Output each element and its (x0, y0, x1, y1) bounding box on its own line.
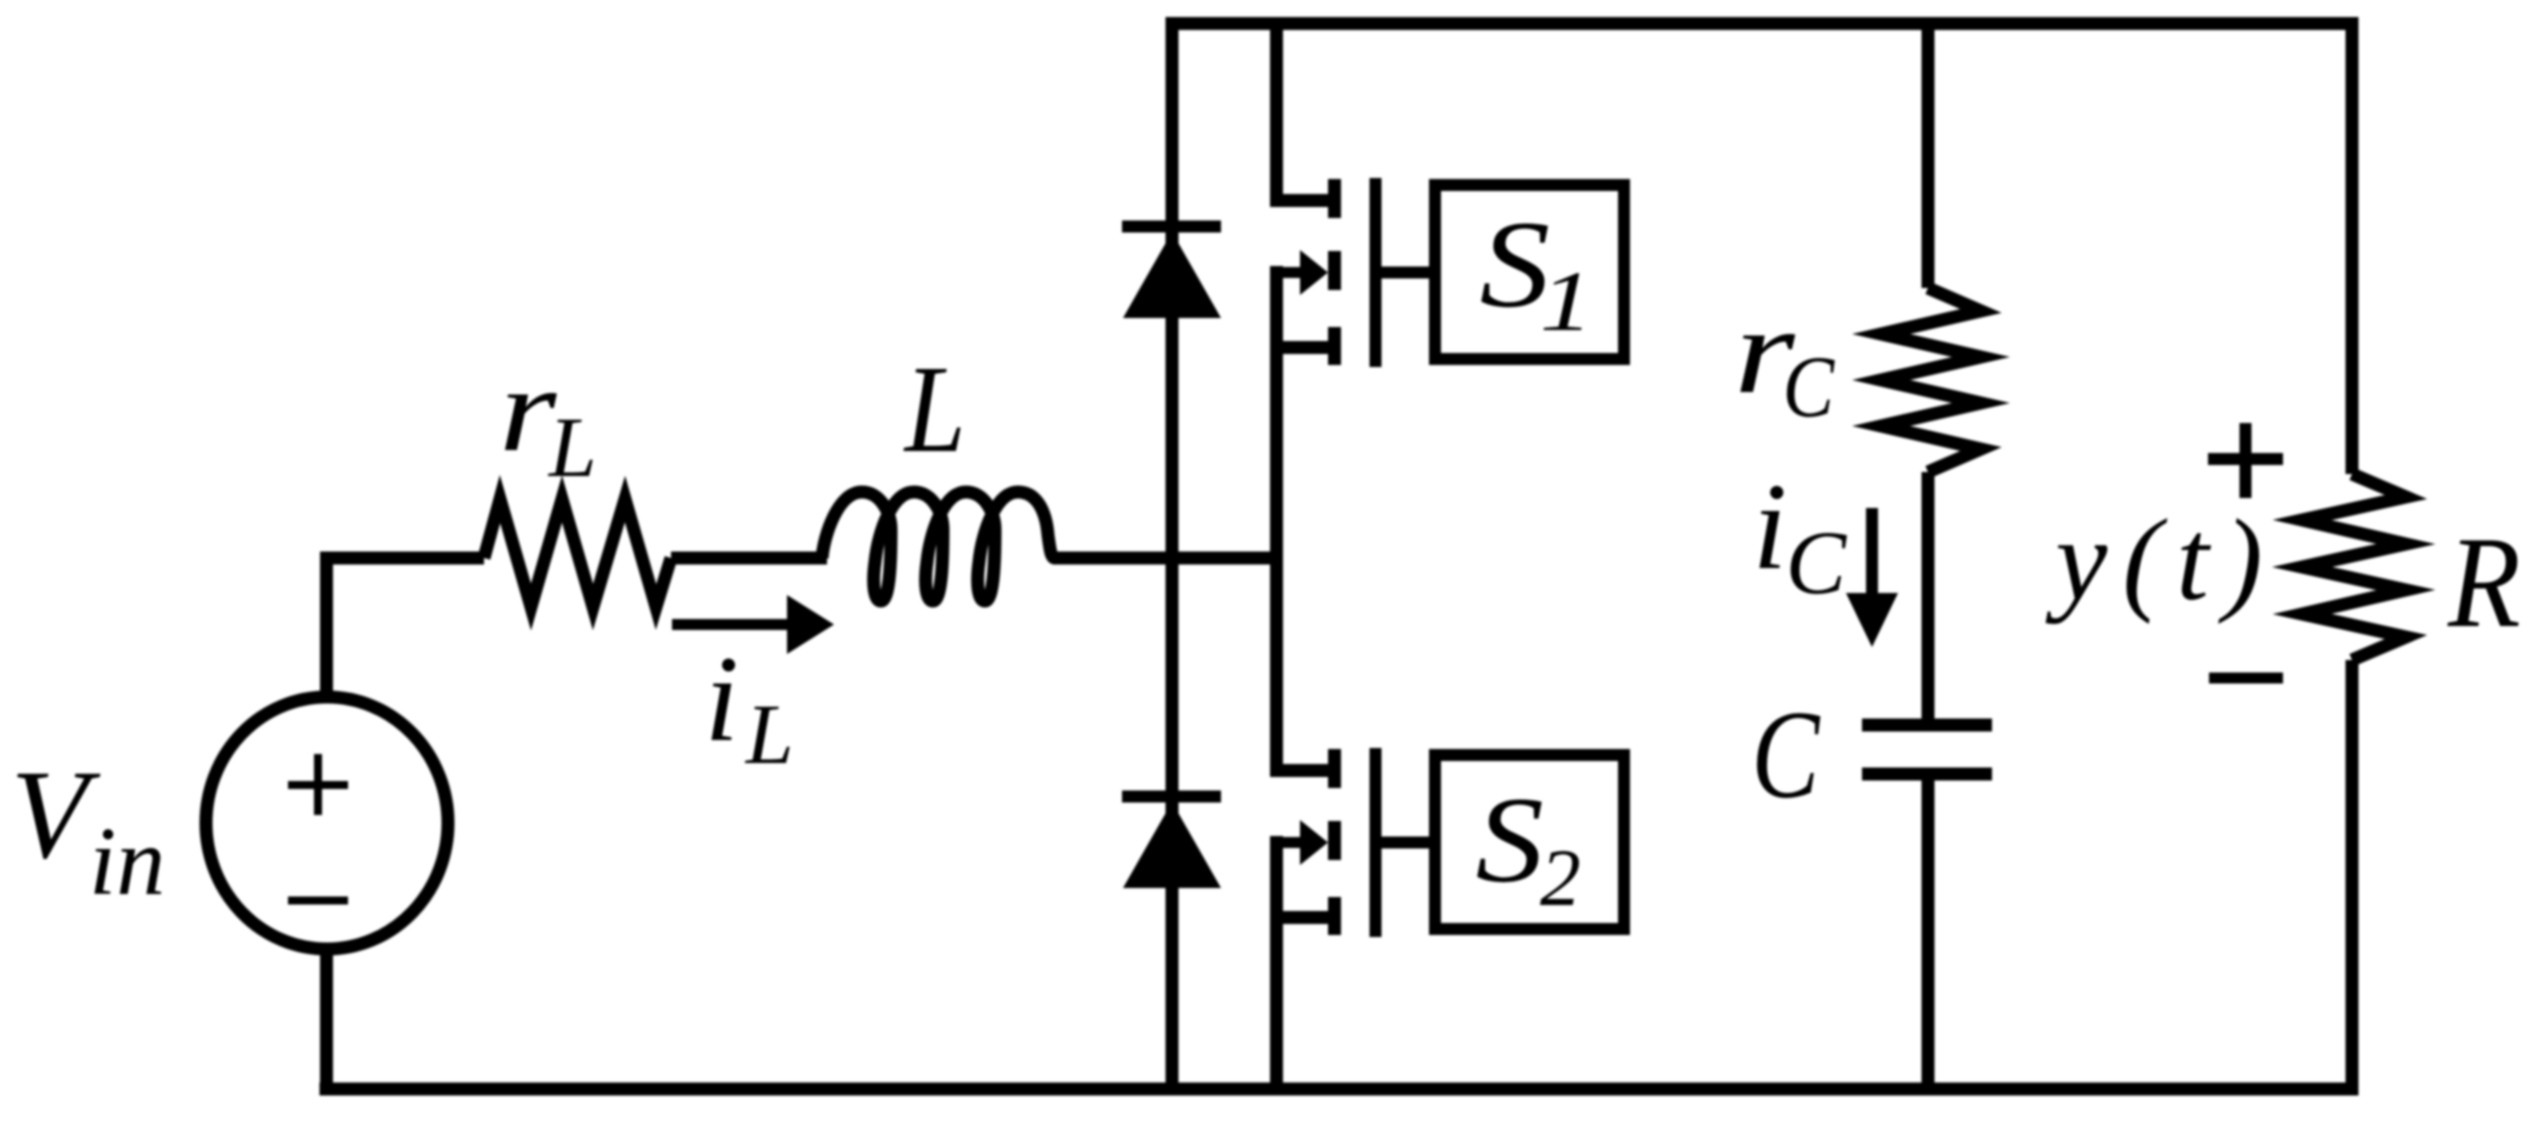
arrow iL shaft (672, 619, 792, 630)
transistor S2 gate bar (1370, 748, 1382, 937)
transistor S1 box (1435, 185, 1624, 359)
transistor S2 body stub (1328, 821, 1341, 860)
transistor S2 drain stub (1328, 749, 1341, 788)
wire mid rail right segment (1053, 552, 1283, 565)
transistor S1 source lead (1270, 341, 1341, 354)
transistor S2 drain lead (1270, 764, 1341, 777)
wire diode branch vertical (1166, 24, 1179, 1090)
svg-text:i: i (705, 630, 739, 767)
svg-text:i: i (1753, 458, 1787, 595)
wire left branch lower (320, 947, 333, 1096)
plus sign at y(t) (2208, 423, 2283, 498)
transistor S1 gate lead (1376, 267, 1435, 279)
svg-text:1: 1 (1540, 254, 1593, 349)
wire right branch lower (2346, 660, 2359, 1089)
wire mid rail left segment (320, 552, 484, 565)
arrow iL head (787, 595, 834, 654)
resistor rC zigzag (1881, 288, 1981, 472)
transistor S1 body arrow head (1300, 250, 1328, 295)
transistor S2 source lead (1270, 911, 1341, 924)
resistor R zigzag (2302, 474, 2406, 660)
transistor S1 drain stub (1328, 179, 1341, 218)
wire rC to capacitor (1922, 472, 1935, 726)
inductor L coil (822, 492, 1055, 601)
wire left branch upper (320, 552, 333, 700)
diode D1 triangle (1123, 232, 1221, 318)
resistor rL zigzag (484, 499, 671, 607)
svg-text:R: R (2447, 511, 2521, 655)
minus sign at y(t) (2209, 673, 2283, 684)
svg-text:V: V (11, 745, 101, 885)
diode D1 cathode bar (1122, 221, 1221, 233)
svg-text:L: L (903, 341, 966, 479)
svg-text:in: in (89, 808, 165, 916)
wire top rail (1166, 17, 2359, 30)
wire mid rail between rL and L (671, 552, 827, 565)
transistor S1 source stub (1328, 327, 1341, 365)
transistor S2 source stub (1328, 897, 1341, 935)
wire MOSFET bus lower (S2 source) (1270, 836, 1283, 1089)
transistor S1 drain lead (1270, 194, 1341, 207)
wire right branch upper (2346, 17, 2359, 474)
svg-text:L: L (744, 686, 794, 782)
svg-text:C: C (1783, 337, 1835, 435)
transistor S2 gate lead (1376, 837, 1435, 849)
arrow iC shaft (1866, 508, 1878, 594)
minus sign inside source (288, 897, 348, 905)
transistor S1 body arrow shaft (1270, 267, 1302, 278)
capacitor C bottom plate (1862, 768, 1992, 781)
wire bottom rail (320, 1083, 2359, 1096)
plus sign inside source (288, 754, 348, 815)
capacitor C top plate (1862, 719, 1992, 732)
svg-text:C: C (1751, 685, 1820, 825)
wire MOSFET bus middle (S1 source to S2 drain) (1270, 266, 1283, 777)
svg-text:y(t): y(t) (2045, 496, 2277, 625)
diode D2 triangle (1123, 802, 1221, 888)
transistor S1 body stub (1328, 251, 1341, 290)
wire rC branch upper (1922, 24, 1935, 289)
wire capacitor to bottom (1922, 773, 1935, 1089)
diode D2 cathode bar (1122, 791, 1221, 803)
svg-text:L: L (547, 399, 597, 495)
transistor S2 body arrow shaft (1270, 837, 1302, 848)
arrow iC head (1846, 593, 1898, 647)
transistor S2 box (1435, 755, 1624, 929)
svg-text:2: 2 (1540, 832, 1581, 923)
wire MOSFET bus upper (S1 drain) (1270, 24, 1283, 208)
transistor S2 body arrow head (1300, 820, 1328, 865)
voltage source Vin circle (206, 697, 448, 949)
svg-text:C: C (1786, 512, 1848, 613)
svg-text:S: S (1476, 772, 1544, 908)
transistor S1 gate bar (1370, 178, 1382, 367)
